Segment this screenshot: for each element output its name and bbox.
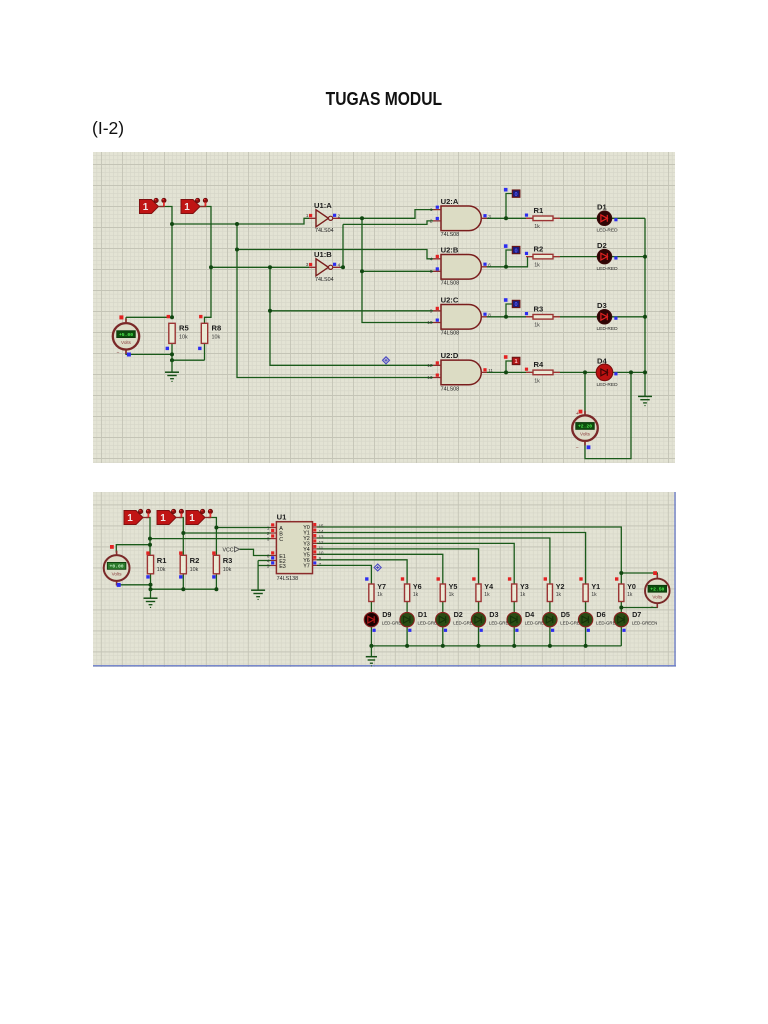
wire input1 to R5 top xyxy=(160,207,172,318)
schematic panel 2 xyxy=(93,492,676,667)
svg-text:D4: D4 xyxy=(597,357,607,366)
origin marker xyxy=(374,564,381,571)
svg-text:D6: D6 xyxy=(596,610,605,619)
LED D5 LED-GREEN xyxy=(543,610,580,632)
wire resistor 1 to LED xyxy=(585,602,587,613)
logic probe 1 xyxy=(504,188,520,198)
svg-text:3: 3 xyxy=(488,214,491,219)
svg-text:15: 15 xyxy=(319,523,324,528)
wire LED col1 to rail xyxy=(406,627,408,646)
wire U2:B out to R2 xyxy=(487,257,534,267)
svg-text:LED-RED: LED-RED xyxy=(597,326,619,332)
wire U2:D out to R4 xyxy=(487,371,534,373)
wire R5 bottom xyxy=(171,343,173,360)
svg-text:+2.50: +2.50 xyxy=(650,587,664,593)
wire probe3 stub xyxy=(506,304,512,317)
wire bottom rail xyxy=(151,588,217,590)
svg-text:Y7: Y7 xyxy=(377,582,386,591)
LED D4 LED-RED xyxy=(596,357,618,388)
svg-text:1: 1 xyxy=(189,513,195,524)
svg-text:D7: D7 xyxy=(632,610,641,619)
svg-text:12: 12 xyxy=(319,540,324,545)
svg-text:1k: 1k xyxy=(484,592,490,598)
wire probe2 stub xyxy=(506,250,512,267)
svg-text:LED-RED: LED-RED xyxy=(597,266,619,272)
wire NOT-A to U2:B pin5 xyxy=(362,270,433,272)
ground LED rail xyxy=(366,646,377,666)
svg-text:LED-GREEN: LED-GREEN xyxy=(632,621,658,626)
logic probe 2 xyxy=(504,244,520,254)
wire E2 stub xyxy=(258,560,270,562)
svg-text:1: 1 xyxy=(184,202,190,213)
wire U1:B out xyxy=(340,266,343,268)
svg-text:1k: 1k xyxy=(534,378,540,384)
wire Y4 to resistor xyxy=(317,549,479,584)
svg-text:Volts: Volts xyxy=(580,432,591,437)
svg-text:1: 1 xyxy=(143,202,149,213)
svg-text:−: − xyxy=(651,604,654,610)
wire voltmeter2 plus tap xyxy=(584,372,586,414)
resistor Y5 1k xyxy=(437,577,458,601)
wire Y7 to resistor xyxy=(317,565,371,584)
resistor R8 10k xyxy=(198,315,221,350)
junction dots xyxy=(170,222,174,226)
wire node A to IC xyxy=(216,527,270,529)
AND gate U2:B (74LS08) xyxy=(430,245,491,286)
wire D3 to bus xyxy=(612,316,646,318)
inverter U1:B (74LS04) xyxy=(306,250,341,283)
svg-text:U1:A: U1:A xyxy=(314,201,332,210)
svg-text:74LS08: 74LS08 xyxy=(441,386,460,392)
voltmeter VM2 +2.20V xyxy=(572,410,598,452)
LED D4 LED-GREEN xyxy=(507,610,544,632)
wire U2:A out to R1 xyxy=(487,217,534,219)
svg-text:Y0: Y0 xyxy=(627,582,636,591)
svg-text:10k: 10k xyxy=(179,335,188,341)
wire LED col0 to rail xyxy=(370,627,372,646)
svg-text:D3: D3 xyxy=(597,301,607,310)
LED D2 LED-RED xyxy=(597,241,619,272)
wire D1 to bus xyxy=(612,217,646,219)
wire Y5 to resistor xyxy=(317,554,443,584)
wire R4 to D4 xyxy=(553,371,598,373)
wire R2 bottom xyxy=(182,574,184,589)
svg-text:D3: D3 xyxy=(489,610,498,619)
svg-text:Y1: Y1 xyxy=(591,582,600,591)
wire Y0 to resistor xyxy=(317,527,621,584)
svg-text:C: C xyxy=(279,537,283,543)
svg-text:VCC: VCC xyxy=(223,548,234,554)
svg-text:U1: U1 xyxy=(277,513,287,522)
svg-text:LED-GRE: LED-GRE xyxy=(382,621,402,626)
svg-text:10k: 10k xyxy=(157,567,166,573)
logic probe 4 xyxy=(504,355,520,365)
wire A to U2:B pin4 xyxy=(237,250,433,259)
wire U2:C out to R3 xyxy=(487,316,534,318)
LED D7 LED-GREEN xyxy=(614,610,657,632)
wire LED cathode bus xyxy=(644,218,646,396)
svg-text:4: 4 xyxy=(430,256,433,261)
svg-text:LED-GRE: LED-GRE xyxy=(453,621,473,626)
inverter U1:A (74LS04) xyxy=(306,201,341,234)
wire node B to IC xyxy=(183,532,270,534)
resistor Y0 1k xyxy=(615,577,636,601)
LED D3 LED-RED xyxy=(597,301,619,332)
svg-text:13: 13 xyxy=(319,534,324,539)
LED D2 LED-GREEN xyxy=(436,610,473,632)
svg-text:2: 2 xyxy=(430,219,433,224)
svg-text:1k: 1k xyxy=(627,592,633,598)
wire voltmeter1 plus to R5 xyxy=(126,317,172,323)
junction dots xyxy=(148,537,152,541)
svg-text:R1: R1 xyxy=(157,556,167,565)
resistor Y3 1k xyxy=(508,577,529,601)
svg-text:10k: 10k xyxy=(223,567,232,573)
resistor R3 1k xyxy=(525,305,560,329)
wire resistor 3 to LED xyxy=(513,602,515,613)
svg-text:+5.00: +5.00 xyxy=(119,332,133,338)
wire D4 to bus xyxy=(612,371,648,373)
wire NOT-A to U2:C pin10 xyxy=(362,218,433,322)
LED D1 LED-RED xyxy=(597,203,619,234)
svg-text:1: 1 xyxy=(160,513,166,524)
svg-text:13: 13 xyxy=(427,375,433,380)
wire E2E3 to ground xyxy=(257,561,259,591)
svg-text:+0.00: +0.00 xyxy=(110,564,124,570)
wire node C to IC xyxy=(150,538,271,540)
resistor R3 10k xyxy=(212,551,232,578)
svg-text:D1: D1 xyxy=(418,610,427,619)
wire R3 bottom xyxy=(215,574,217,589)
wire B to U2:C pin9 xyxy=(270,310,433,312)
svg-text:2: 2 xyxy=(338,214,341,219)
svg-text:9: 9 xyxy=(430,308,433,313)
svg-text:LED-RED: LED-RED xyxy=(597,228,619,234)
svg-text:1k: 1k xyxy=(534,323,540,329)
wire U1:A out to U2:A pin1 xyxy=(340,210,433,219)
svg-text:D1: D1 xyxy=(597,203,607,212)
wire D2 to bus xyxy=(612,256,646,258)
logic input 4 (state 1) xyxy=(157,509,184,524)
svg-text:U2:D: U2:D xyxy=(441,351,459,360)
svg-text:−: − xyxy=(117,351,120,357)
wire R1 bottom xyxy=(150,574,152,589)
svg-text:R3: R3 xyxy=(223,556,233,565)
wire VCC to E1 xyxy=(240,549,271,555)
svg-text:LED-GRE: LED-GRE xyxy=(525,621,545,626)
wire input2 down xyxy=(179,518,183,556)
svg-text:LED-GRE: LED-GRE xyxy=(560,621,580,626)
wire voltmeter3 plus xyxy=(621,573,657,579)
svg-text:1k: 1k xyxy=(556,592,562,598)
LED D9 LED-GREEN xyxy=(364,610,401,632)
schematic panel 1 xyxy=(93,152,675,463)
svg-text:4: 4 xyxy=(338,263,341,268)
svg-text:LED-RED: LED-RED xyxy=(597,382,619,388)
svg-text:Volts: Volts xyxy=(121,340,132,345)
svg-text:D2: D2 xyxy=(454,610,463,619)
wire resistor 7 to LED xyxy=(370,602,372,613)
svg-text:R8: R8 xyxy=(212,324,222,333)
svg-text:5: 5 xyxy=(430,269,433,274)
logic input 1 (state 1) xyxy=(140,198,167,213)
wire resistor 6 to LED xyxy=(406,602,408,613)
svg-text:1: 1 xyxy=(515,359,518,365)
svg-text:Y3: Y3 xyxy=(520,582,529,591)
logic input 2 (state 1) xyxy=(181,198,208,213)
svg-text:Y6: Y6 xyxy=(413,582,422,591)
svg-text:Volts: Volts xyxy=(112,572,123,577)
wire Y1 to resistor xyxy=(317,533,586,585)
origin marker xyxy=(383,357,390,364)
svg-text:R2: R2 xyxy=(534,244,544,253)
svg-text:+: + xyxy=(576,411,579,417)
svg-text:1k: 1k xyxy=(413,592,419,598)
wire LED col2 to rail xyxy=(442,627,444,646)
wire node A feed xyxy=(172,218,309,224)
resistor Y7 1k xyxy=(365,577,386,601)
svg-text:D2: D2 xyxy=(597,241,607,250)
svg-text:14: 14 xyxy=(319,529,324,534)
svg-text:U2:B: U2:B xyxy=(441,245,459,254)
wire NOT-B to U2:A pin2 xyxy=(343,221,433,225)
svg-text:10: 10 xyxy=(319,551,324,556)
wire input2 to R8 top xyxy=(200,207,211,324)
svg-text:1k: 1k xyxy=(449,592,455,598)
svg-text:R5: R5 xyxy=(179,324,189,333)
svg-text:10k: 10k xyxy=(212,335,221,341)
svg-text:11: 11 xyxy=(319,545,324,550)
wire probe1 stub xyxy=(506,194,512,219)
svg-text:D4: D4 xyxy=(525,610,534,619)
svg-text:Y7: Y7 xyxy=(303,564,310,570)
wire ground rail R5-R8 xyxy=(172,343,205,360)
svg-text:74LS04: 74LS04 xyxy=(315,277,334,283)
svg-text:D5: D5 xyxy=(561,610,570,619)
logic probe 3 xyxy=(504,298,520,308)
section label (I-2) xyxy=(92,118,124,139)
svg-text:74LS138: 74LS138 xyxy=(277,576,299,582)
svg-text:E3: E3 xyxy=(279,564,286,570)
svg-text:10: 10 xyxy=(427,320,433,325)
svg-text:Y5: Y5 xyxy=(449,582,458,591)
wire input1 down xyxy=(146,518,150,556)
svg-text:11: 11 xyxy=(488,368,493,373)
resistor Y4 1k xyxy=(472,577,493,601)
svg-text:LED-GRE: LED-GRE xyxy=(489,621,509,626)
wire R3 to D3 xyxy=(553,316,598,318)
wire Y6 to resistor xyxy=(317,560,407,584)
document title xyxy=(0,88,768,110)
wire voltmeter minus xyxy=(117,583,151,585)
svg-text:LED-GRE: LED-GRE xyxy=(418,621,438,626)
wire resistor 5 to LED xyxy=(442,602,444,613)
svg-text:R2: R2 xyxy=(190,556,200,565)
svg-text:1k: 1k xyxy=(534,263,540,269)
wire node B to U1:B input xyxy=(211,266,309,268)
wire Y2 to resistor xyxy=(317,538,550,584)
wire LED col5 to rail xyxy=(549,627,551,646)
svg-text:Y2: Y2 xyxy=(556,582,565,591)
svg-text:0: 0 xyxy=(515,302,518,308)
svg-text:R3: R3 xyxy=(534,305,544,314)
svg-text:1: 1 xyxy=(127,513,133,524)
svg-text:1k: 1k xyxy=(534,224,540,230)
logic input 5 (state 1) xyxy=(186,509,213,524)
wire probe4 stub xyxy=(506,361,512,372)
svg-text:R1: R1 xyxy=(534,206,544,215)
AND gate U2:C (74LS08) xyxy=(427,295,491,336)
svg-text:10k: 10k xyxy=(190,567,199,573)
wire R2 to D2 xyxy=(553,256,598,258)
svg-text:1k: 1k xyxy=(377,592,383,598)
svg-text:LED-GRE: LED-GRE xyxy=(596,621,616,626)
wire resistor 2 to LED xyxy=(549,602,551,613)
svg-text:74LS04: 74LS04 xyxy=(315,228,334,234)
wire voltmeter2 minus loop xyxy=(585,372,631,458)
svg-text:8: 8 xyxy=(488,313,491,318)
svg-text:1: 1 xyxy=(306,213,309,218)
svg-text:U2:A: U2:A xyxy=(441,197,459,206)
resistor R1 1k xyxy=(525,206,560,230)
wire voltmeter3 minus xyxy=(621,604,657,608)
AND gate U2:D (74LS08) xyxy=(427,351,493,392)
wire input3 down xyxy=(208,518,216,556)
LED D3 LED-GREEN xyxy=(471,610,508,632)
resistor Y6 1k xyxy=(401,577,422,601)
resistor R4 1k xyxy=(525,360,560,384)
wire LED col4 to rail xyxy=(513,627,515,646)
wire voltmeter1 minus xyxy=(126,350,172,355)
wire LED ground rail xyxy=(371,645,621,647)
wire voltmeter plus tap xyxy=(116,545,150,553)
wire LED col3 to rail xyxy=(478,627,480,646)
svg-text:74LS08: 74LS08 xyxy=(441,281,460,287)
wire B to U2:D pin12 xyxy=(270,267,433,365)
resistor R5 10k xyxy=(166,315,190,350)
svg-text:U2:C: U2:C xyxy=(441,295,459,304)
wire LED col6 to rail xyxy=(585,627,587,646)
svg-text:Y4: Y4 xyxy=(484,582,493,591)
window edge borders xyxy=(93,492,676,666)
ground (right, LED bus) xyxy=(638,396,652,405)
svg-text:1: 1 xyxy=(430,207,433,212)
wire Y3 to resistor xyxy=(317,543,514,584)
voltmeter VM3 left xyxy=(104,545,130,587)
logic input 3 (state 1) xyxy=(124,509,151,524)
svg-text:U1:B: U1:B xyxy=(314,250,332,259)
LED D6 LED-GREEN xyxy=(578,610,615,632)
svg-text:74LS08: 74LS08 xyxy=(441,232,460,238)
resistor R1 10k xyxy=(146,551,167,578)
ground under R1 xyxy=(144,589,158,607)
svg-text:+2.20: +2.20 xyxy=(578,424,592,430)
svg-text:0: 0 xyxy=(515,192,518,198)
svg-text:12: 12 xyxy=(427,363,433,368)
wire NOT-B vertical xyxy=(342,224,344,267)
wire E3 stub xyxy=(258,565,270,567)
LED D1 LED-GREEN xyxy=(400,610,437,632)
wire resistor 0 to LED xyxy=(620,602,622,613)
wire R1 to D1 xyxy=(553,217,598,219)
svg-text:6: 6 xyxy=(488,263,491,268)
VCC power label xyxy=(223,547,240,554)
svg-text:3: 3 xyxy=(306,262,309,267)
wire resistor 4 to LED xyxy=(478,602,480,613)
svg-text:R4: R4 xyxy=(534,360,544,369)
svg-text:1k: 1k xyxy=(520,592,526,598)
svg-text:1k: 1k xyxy=(591,592,597,598)
resistor R2 10k xyxy=(179,551,199,578)
resistor Y2 1k xyxy=(544,577,565,601)
svg-text:D9: D9 xyxy=(382,610,391,619)
svg-text:0: 0 xyxy=(515,248,518,254)
wire A to U2:D pin13 xyxy=(237,224,433,378)
IC U1 74LS138 decoder xyxy=(267,513,324,582)
voltmeter VM1 +5.00V xyxy=(113,315,139,356)
svg-text:74LS08: 74LS08 xyxy=(441,331,460,337)
ground under E2/E3 xyxy=(251,590,265,599)
wire LED col7 to rail xyxy=(620,627,622,646)
voltmeter VM4 right +2.50V xyxy=(645,571,670,610)
AND gate U2:A (74LS08) xyxy=(430,197,491,238)
resistor R2 1k xyxy=(525,244,560,268)
ground (left, under R5) xyxy=(165,360,179,381)
svg-text:−: − xyxy=(576,446,579,452)
resistor Y1 1k xyxy=(579,577,600,601)
svg-text:Volts: Volts xyxy=(652,595,663,600)
